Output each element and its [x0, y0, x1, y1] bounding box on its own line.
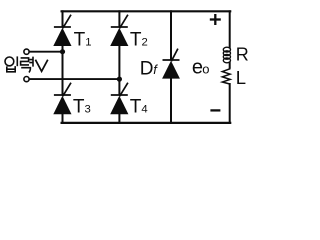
junction dot upper input / left branch: [60, 49, 65, 54]
label V of 입력V: [35, 60, 47, 72]
wire bottom rail: [62, 122, 231, 124]
력 glyph: [21, 58, 29, 65]
minus sign output: [210, 109, 220, 111]
thyristor T3: [53, 83, 71, 115]
wire input upper: [29, 51, 62, 53]
junction dot lower input / right branch: [117, 77, 122, 82]
입 glyph: [5, 57, 14, 66]
svg-text:Df: Df: [140, 59, 158, 80]
thyristor T1: [53, 15, 71, 46]
wire Df branch lower (Df to rail): [170, 79, 172, 123]
wire right branch middle (T2 to T4): [118, 46, 120, 95]
thyristor T4: [110, 83, 128, 115]
wire top rail: [62, 10, 231, 12]
svg-text:eo: eo: [192, 57, 210, 79]
wire load branch lower (L to rail): [229, 84, 231, 123]
wire load branch upper (rail to R coil): [229, 11, 231, 47]
svg-text:T1: T1: [74, 30, 92, 51]
wire left branch lower (T3 to rail): [62, 114, 64, 123]
resistor zigzag L: [222, 68, 230, 85]
svg-text:R: R: [236, 45, 249, 65]
thyristor T2: [110, 15, 128, 46]
wire left branch middle (T1 to T3): [62, 46, 64, 95]
wire load branch between R and L: [229, 63, 231, 68]
wire input lower: [29, 78, 119, 80]
diode Df (freewheeling): [162, 49, 180, 79]
label 입력 (drawn glyphs): [5, 56, 33, 72]
wire right branch upper (rail to T2): [118, 11, 120, 26]
wire right branch lower (T4 to rail): [118, 114, 120, 123]
wire Df branch upper (rail to Df): [170, 11, 172, 59]
svg-text:T2: T2: [130, 30, 148, 51]
terminal circle lower input: [24, 77, 29, 82]
terminal circle upper input: [24, 49, 29, 54]
svg-text:T4: T4: [130, 97, 148, 118]
inductor-style coil R: [223, 47, 230, 63]
svg-text:T3: T3: [73, 97, 91, 118]
plus sign output: [210, 14, 221, 25]
svg-text:L: L: [236, 67, 246, 88]
wire left branch upper (rail to T1): [62, 11, 64, 26]
